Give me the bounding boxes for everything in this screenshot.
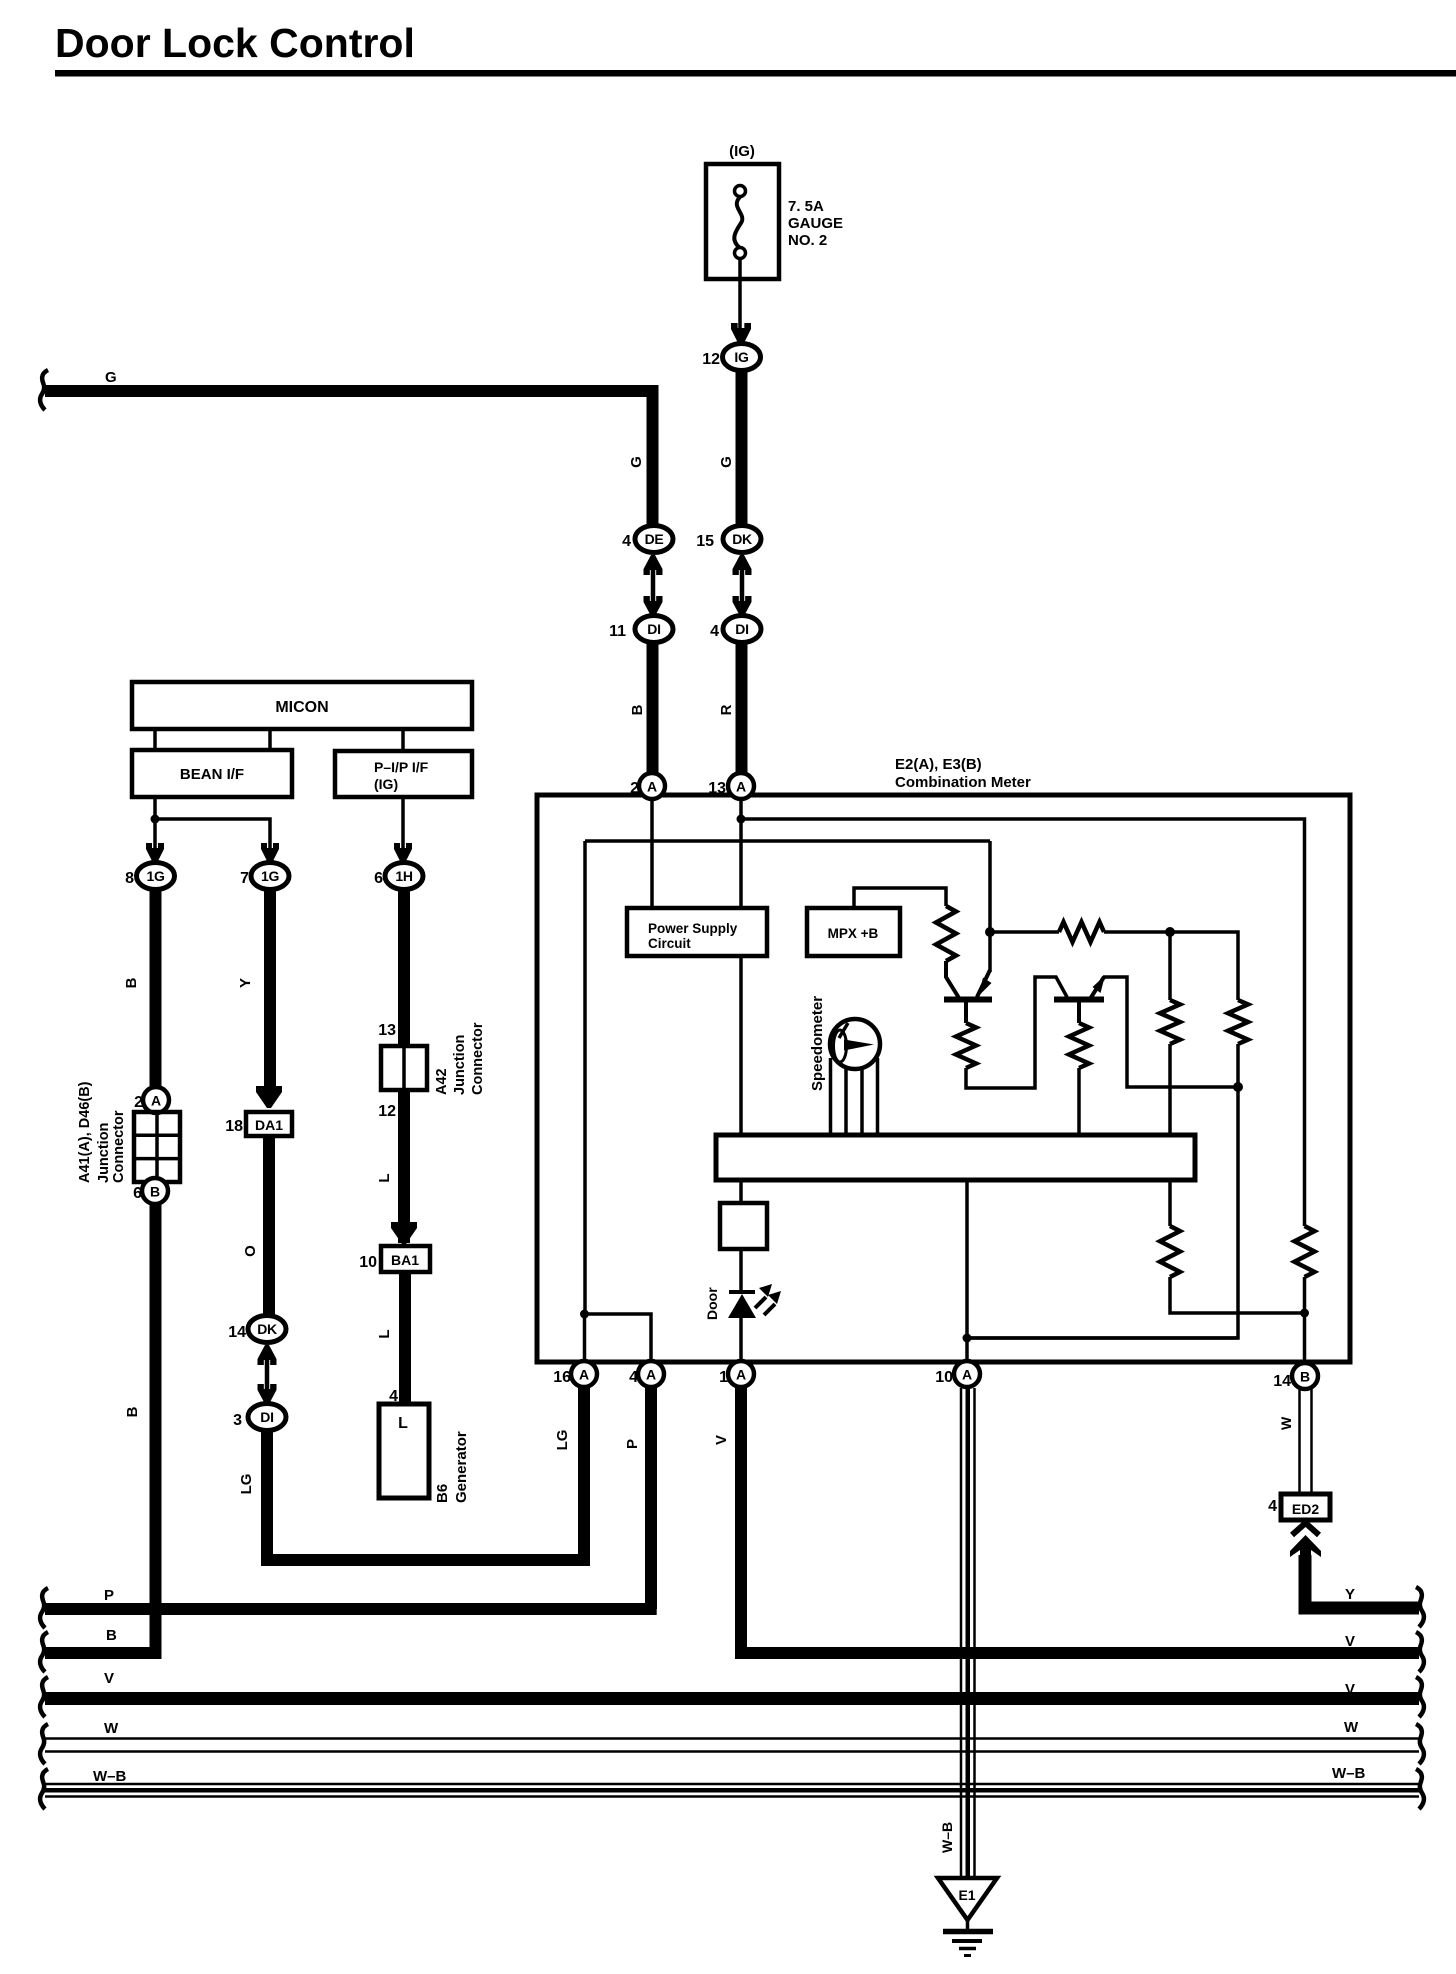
connector 15 (DK) xyxy=(696,526,761,553)
BEAN I/F box xyxy=(132,750,292,797)
wire L from A42 to BA1 xyxy=(398,1090,410,1243)
svg-text:DE: DE xyxy=(645,531,664,547)
svg-text:18: 18 xyxy=(225,1118,243,1135)
resistor R3 xyxy=(1069,1023,1089,1068)
wire MPX +B to resistor R1 xyxy=(854,888,946,908)
svg-text:V: V xyxy=(1345,1681,1355,1698)
svg-text:Combination Meter: Combination Meter xyxy=(895,774,1031,791)
svg-text:4: 4 xyxy=(710,623,719,640)
svg-text:Junction: Junction xyxy=(96,1123,112,1183)
svg-text:Door: Door xyxy=(704,1287,720,1320)
svg-text:A: A xyxy=(647,779,657,795)
right break squiggle V upper xyxy=(1416,1632,1424,1672)
wire Q2 collector to R3 xyxy=(1077,1002,1081,1023)
resistor R6 feed xyxy=(1168,932,1172,1000)
svg-text:A: A xyxy=(646,1367,656,1383)
wire Y from 1G to DA1 xyxy=(264,888,276,1092)
wire between DE and DI connectors xyxy=(651,570,656,602)
svg-text:(IG): (IG) xyxy=(729,143,755,160)
MPX +B box xyxy=(807,908,900,956)
right break squiggle W wire xyxy=(1416,1724,1424,1764)
svg-text:LG: LG xyxy=(238,1474,255,1495)
terminal 2 (A) xyxy=(630,773,665,799)
svg-text:V: V xyxy=(104,1670,114,1687)
svg-text:BA1: BA1 xyxy=(391,1252,419,1268)
internal bus bar xyxy=(716,1135,1195,1180)
svg-text:A41(A), D46(B): A41(A), D46(B) xyxy=(77,1081,93,1183)
svg-text:4: 4 xyxy=(622,533,631,550)
svg-text:1: 1 xyxy=(719,1369,728,1386)
ground E1 triangle xyxy=(938,1878,997,1920)
node dot below BEAN xyxy=(151,815,160,824)
svg-text:B: B xyxy=(124,1406,141,1417)
transistor Q1 bar xyxy=(944,997,992,1003)
svg-text:W–B: W–B xyxy=(1332,1765,1366,1782)
connector 4 (DI) right xyxy=(710,616,761,643)
wire O from DA1 to 14(DK) xyxy=(263,1136,275,1316)
svg-text:B: B xyxy=(150,1184,160,1200)
resistor R7 xyxy=(1160,1226,1180,1277)
wire R4 down to corner xyxy=(966,1044,1238,1338)
transistor Q2 emitter arrow xyxy=(1090,977,1104,999)
connector 12 (IG) xyxy=(702,344,760,371)
svg-text:7. 5A: 7. 5A xyxy=(788,198,824,215)
svg-text:DA1: DA1 xyxy=(255,1117,283,1133)
LED Door cathode bar xyxy=(729,1290,755,1294)
resistor R4 xyxy=(1228,1000,1248,1044)
arrow into BA1 xyxy=(391,1222,417,1244)
svg-text:ED2: ED2 xyxy=(1292,1501,1319,1517)
wire P-I/P to 6(1H) xyxy=(401,797,405,850)
svg-text:E1: E1 xyxy=(958,1887,975,1903)
svg-text:Y: Y xyxy=(237,978,254,988)
wire G from 12(IG) to DK xyxy=(736,369,748,525)
svg-text:A: A xyxy=(962,1367,972,1383)
svg-text:Circuit: Circuit xyxy=(648,936,691,951)
wire LG from 3(DI) to terminal 16(A) xyxy=(267,1388,584,1560)
ground symbol xyxy=(966,1918,970,1931)
svg-text:11: 11 xyxy=(609,623,626,640)
title underline xyxy=(55,70,1456,77)
arrow into DA1 xyxy=(256,1086,282,1108)
svg-text:13: 13 xyxy=(708,780,726,797)
svg-text:G: G xyxy=(105,369,117,386)
connector arrow down into DI right xyxy=(733,596,752,616)
inner jog to terminal 4(A) xyxy=(585,1314,652,1362)
wire L from 1H to A42 xyxy=(398,888,410,1048)
wire R2 to Q2 base xyxy=(966,977,1067,1088)
node dot inner left bottom xyxy=(580,1310,589,1319)
P-I/P I/F box xyxy=(335,751,472,797)
right break squiggle Y wire xyxy=(1416,1587,1424,1627)
terminal 16 (A) xyxy=(553,1361,597,1387)
wire bus to door lamp module xyxy=(739,1180,743,1203)
node dot Q1 top xyxy=(985,927,995,937)
connector arrow up into 14(DK) xyxy=(258,1345,277,1365)
svg-text:6: 6 xyxy=(374,870,383,887)
svg-text:G: G xyxy=(718,456,735,468)
svg-text:10: 10 xyxy=(359,1254,377,1271)
inner right edge down to transistor xyxy=(988,841,992,932)
svg-text:W: W xyxy=(1344,1719,1359,1736)
wire R from DI to terminal 13 xyxy=(736,642,748,774)
wire V from terminal 1(A) to right break xyxy=(741,1387,1419,1653)
right break squiggle V lower xyxy=(1416,1677,1424,1717)
svg-text:2: 2 xyxy=(630,780,639,797)
speedometer needle xyxy=(839,1023,848,1038)
svg-text:V: V xyxy=(713,1435,730,1445)
chevron into ED2 xyxy=(1292,1523,1319,1535)
svg-text:Junction: Junction xyxy=(452,1035,468,1095)
wire G horizontal from left break to DE branch xyxy=(45,391,653,525)
connector 6 (1H) xyxy=(374,863,423,890)
svg-text:G: G xyxy=(628,456,645,468)
terminal 10 (A) xyxy=(935,1361,980,1387)
wire R6 to bus bar xyxy=(1168,1044,1172,1135)
svg-text:W–B: W–B xyxy=(93,1768,127,1785)
wire BEAN to 8(1G) xyxy=(153,797,157,850)
connector arrow up into DK xyxy=(733,555,752,575)
left break squiggle B wire xyxy=(40,1632,48,1672)
svg-text:Power Supply: Power Supply xyxy=(648,921,738,936)
junction connector A41/D46 grid xyxy=(134,1112,180,1182)
wire P from terminal 4(A) to left break xyxy=(45,1387,657,1609)
ED2 box xyxy=(1281,1494,1330,1520)
svg-text:DI: DI xyxy=(735,621,748,637)
wire from terminal 13(A) down to bus bar xyxy=(739,799,743,1135)
svg-text:12: 12 xyxy=(378,1103,396,1120)
wire W-B full width xyxy=(45,1784,1419,1797)
inner unit top edge xyxy=(585,839,990,843)
resistor R8 xyxy=(1295,1226,1315,1277)
wire R3 to bus bar xyxy=(1077,1068,1081,1135)
svg-text:Generator: Generator xyxy=(453,1431,470,1503)
connector 11 (DI) xyxy=(609,616,673,643)
svg-text:NO. 2: NO. 2 xyxy=(788,232,827,249)
arrow into 8(1G) xyxy=(146,843,164,863)
svg-text:L: L xyxy=(376,1173,393,1182)
svg-text:Door Lock Control: Door Lock Control xyxy=(55,20,415,66)
connector arrow down into DI xyxy=(644,596,663,616)
svg-text:15: 15 xyxy=(696,533,714,550)
left break squiggle W-B wire xyxy=(40,1769,48,1809)
svg-text:BEAN I/F: BEAN I/F xyxy=(180,766,244,783)
svg-text:DK: DK xyxy=(732,531,752,547)
connector 7 (1G) xyxy=(240,863,289,890)
svg-text:B: B xyxy=(106,1627,117,1644)
svg-text:A: A xyxy=(736,779,746,795)
wire V full width xyxy=(45,1692,1419,1705)
connector 8 (1G) xyxy=(125,863,174,890)
LED light arrows xyxy=(755,1297,775,1315)
svg-text:B: B xyxy=(1300,1369,1310,1385)
wire W from terminal 14(B) to ED2 xyxy=(1300,1389,1312,1494)
svg-text:W: W xyxy=(1278,1416,1294,1430)
resistor R1 xyxy=(936,906,956,961)
generator terminal box L xyxy=(379,1404,429,1498)
stub MICON to BEAN left xyxy=(153,729,157,750)
wire R7 to 14(B) node xyxy=(1170,1277,1305,1313)
transistor Q1 base feed xyxy=(946,961,959,998)
svg-text:B: B xyxy=(629,704,646,715)
arrow into 7(1G) xyxy=(261,843,279,863)
connector 3 (DI) xyxy=(233,1404,286,1431)
svg-text:A: A xyxy=(151,1093,161,1109)
wire Q2 emitter right and down xyxy=(1103,977,1238,1087)
svg-text:Y: Y xyxy=(1345,1586,1355,1603)
svg-text:L: L xyxy=(376,1329,393,1338)
svg-text:B: B xyxy=(123,977,140,988)
svg-text:16: 16 xyxy=(553,1369,571,1386)
wire W-B from terminal 10(A) to ground xyxy=(961,1388,975,1876)
wire Y from ED2 to right break xyxy=(1305,1555,1419,1608)
arrow into 6(1H) xyxy=(394,843,412,863)
door lamp module box xyxy=(720,1203,767,1249)
svg-text:4: 4 xyxy=(629,1369,638,1386)
wire Q1 collector to R2 xyxy=(964,1002,968,1023)
node dot 13(A) branch xyxy=(737,815,746,824)
inner left edge to terminal 16(A) xyxy=(583,1314,587,1362)
svg-text:DI: DI xyxy=(647,621,660,637)
svg-text:V: V xyxy=(1345,1633,1355,1650)
node dot R4 top xyxy=(1165,927,1175,937)
arrow into 12(IG) xyxy=(731,323,751,345)
BA1 box xyxy=(381,1246,430,1272)
left break squiggle W wire xyxy=(40,1724,48,1764)
svg-text:P: P xyxy=(624,1439,641,1449)
terminal 4 (A) xyxy=(629,1361,664,1387)
node dot emitter bus xyxy=(1233,1082,1243,1092)
svg-text:MPX +B: MPX +B xyxy=(828,926,879,941)
arrow into ED2 xyxy=(1290,1535,1321,1562)
connector 14 (DK) xyxy=(228,1316,286,1343)
DA1 box xyxy=(246,1112,292,1136)
power supply circuit box xyxy=(627,908,767,956)
svg-text:13: 13 xyxy=(378,1022,396,1039)
wire B from 1G to junction connector A xyxy=(150,888,162,1089)
wire between DK and DI xyxy=(740,570,745,602)
junction terminal 2 (A) xyxy=(134,1087,169,1113)
wire from terminal 2(A) to power supply xyxy=(650,799,654,908)
wire R8 to terminal 14(B) xyxy=(1303,1277,1307,1362)
svg-text:14: 14 xyxy=(1273,1373,1291,1390)
svg-text:6: 6 xyxy=(133,1185,142,1202)
fuse F1 7.5A GAUGE NO.2 box xyxy=(706,164,779,279)
resistor R5 horizontal xyxy=(1059,922,1104,942)
svg-text:A42: A42 xyxy=(434,1068,450,1095)
svg-text:Speedometer: Speedometer xyxy=(809,996,826,1091)
stub MICON to BEAN right xyxy=(268,729,272,750)
svg-text:P: P xyxy=(104,1587,114,1604)
wire node to R5 xyxy=(990,930,1059,934)
transistor Q1 emitter arrow xyxy=(977,970,990,997)
svg-text:GAUGE: GAUGE xyxy=(788,215,843,232)
svg-text:P–I/P I/F: P–I/P I/F xyxy=(374,759,429,775)
connector arrow down into 3(DI) xyxy=(258,1384,277,1404)
svg-text:B6: B6 xyxy=(434,1484,451,1503)
wire L from BA1 to generator xyxy=(399,1272,411,1406)
MICON box xyxy=(132,682,472,729)
wire B down to bottom bus xyxy=(45,1203,156,1653)
transistor Q2 bar xyxy=(1054,997,1104,1003)
wire from node right to 14(B) branch xyxy=(741,819,1305,1226)
svg-text:2: 2 xyxy=(134,1094,143,1111)
node dot 14(B) branch xyxy=(1300,1309,1309,1318)
junction terminal 6 (B) xyxy=(133,1178,168,1204)
svg-text:LG: LG xyxy=(554,1430,571,1451)
left break squiggle P wire xyxy=(40,1588,48,1628)
stub MICON to P-I/P xyxy=(401,729,405,751)
svg-text:DK: DK xyxy=(257,1321,277,1337)
svg-text:A: A xyxy=(579,1367,589,1383)
svg-text:(IG): (IG) xyxy=(374,776,398,792)
svg-text:W–B: W–B xyxy=(939,1822,955,1853)
svg-text:12: 12 xyxy=(702,351,720,368)
wire B from DI to terminal 2 xyxy=(647,642,659,774)
svg-text:8: 8 xyxy=(125,870,134,887)
svg-text:10: 10 xyxy=(935,1369,953,1386)
terminal 1 (A) xyxy=(719,1361,754,1387)
svg-text:1H: 1H xyxy=(395,868,412,884)
wire Q1 emitter from node xyxy=(988,932,992,972)
svg-text:Connector: Connector xyxy=(470,1022,486,1095)
resistor R6 xyxy=(1160,1000,1180,1044)
svg-text:DI: DI xyxy=(260,1409,273,1425)
terminal 13 (A) xyxy=(708,773,754,799)
svg-text:Connector: Connector xyxy=(111,1110,127,1183)
wire LED to terminal 1(A) xyxy=(739,1318,743,1362)
label 4 and connector (DE) xyxy=(622,526,673,553)
svg-text:3: 3 xyxy=(233,1412,242,1429)
svg-text:14: 14 xyxy=(228,1324,246,1341)
svg-text:O: O xyxy=(242,1245,259,1257)
wire 10(A) node to emitter line xyxy=(967,1336,1238,1340)
speedometer legs xyxy=(831,1058,878,1135)
node dot 10(A) branch xyxy=(963,1334,972,1343)
resistor R7 below bus feed xyxy=(1168,1180,1172,1226)
svg-text:IG: IG xyxy=(734,349,749,365)
A42 junction connector grid xyxy=(381,1046,427,1090)
svg-text:1G: 1G xyxy=(146,868,164,884)
left break squiggle G wire xyxy=(40,370,48,410)
left break squiggle V wire xyxy=(40,1677,48,1717)
svg-text:7: 7 xyxy=(240,870,249,887)
connector arrow up into DE xyxy=(644,555,663,575)
fuse element xyxy=(734,186,745,333)
right break squiggle W-B wire xyxy=(1416,1769,1424,1809)
resistor R2 xyxy=(956,1023,976,1068)
svg-text:L: L xyxy=(398,1415,408,1432)
wire W full width xyxy=(45,1739,1419,1752)
wire bus to terminal 10(A) xyxy=(965,1180,969,1362)
wire R5 to R4 corner xyxy=(1104,932,1238,1000)
speedometer dial xyxy=(830,1019,880,1069)
svg-text:W: W xyxy=(104,1720,119,1737)
svg-text:MICON: MICON xyxy=(275,699,328,716)
svg-text:4: 4 xyxy=(1268,1498,1277,1515)
svg-text:R: R xyxy=(718,704,735,715)
wire branch to 7(1G) xyxy=(155,819,270,850)
inner unit left edge xyxy=(583,841,587,1314)
wire module to LED xyxy=(739,1249,743,1292)
terminal 14 (B) xyxy=(1273,1363,1318,1390)
svg-text:1G: 1G xyxy=(261,868,279,884)
LED Door triangle xyxy=(728,1294,756,1318)
wire between DK and 3(DI) xyxy=(265,1360,270,1392)
svg-text:A: A xyxy=(736,1367,746,1383)
svg-text:E2(A), E3(B): E2(A), E3(B) xyxy=(895,756,982,773)
combination meter box xyxy=(537,795,1350,1362)
